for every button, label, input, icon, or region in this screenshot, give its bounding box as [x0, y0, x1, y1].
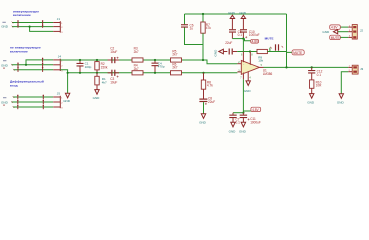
junction (block 2 riser)	[25, 64, 27, 66]
svg-text:1000uF: 1000uF	[250, 120, 261, 124]
wire: J2 pin1	[340, 26, 348, 28]
junction 4.8V rail	[242, 38, 244, 40]
wire C8 to ground	[203, 102, 205, 114]
svg-text:47k: 47k	[206, 26, 211, 30]
jumper SJ2 pads (block 1, x=42.6)	[42, 20, 43, 28]
pin 4 stub (bottom, GND)	[247, 72, 249, 81]
svg-text:1000uF: 1000uF	[249, 33, 260, 37]
resistor R2 150k (vertical, x=97)	[95, 60, 108, 73]
capacitor C2 10uF (polarized, top wire x=113)	[108, 47, 119, 64]
svg-text:LM386: LM386	[263, 72, 273, 76]
wire net top (block 3)	[13, 96, 53, 98]
connector J5 (block 3)	[53, 91, 63, 109]
pin 8 stub (gain, top)	[249, 52, 251, 65]
ground symbol GND (block 3 left)	[1, 98, 9, 106]
resistor R10 10R (Zobel)	[310, 80, 323, 94]
capacitor C1 100p (vertical, x=80)	[77, 60, 92, 73]
jumper SJ5 pads (block 3, x=17.8)	[17, 95, 18, 109]
svg-text:2k7: 2k7	[172, 53, 177, 57]
ground symbol GND (block 1 left)	[1, 22, 9, 28]
wire: from C6/R7 bottom down to top signal wire	[202, 45, 204, 61]
junction R7 top rail	[202, 13, 204, 15]
junction at (250,51.5)	[249, 50, 251, 52]
wire: top signal net from J4 pin1 to step	[60, 60, 237, 64]
junction R2 top	[96, 59, 98, 61]
ground GND (left of C9, rotated)	[214, 49, 228, 57]
svg-text:GND: GND	[307, 101, 315, 105]
ground GND (below C11)	[239, 122, 247, 133]
svg-text:-: -	[243, 62, 244, 66]
wire net signal top (block 2) with riser	[26, 60, 53, 65]
svg-text:4.8V: 4.8V	[252, 108, 259, 112]
resistor R8 4.7k (vertical)	[201, 73, 213, 89]
svg-text:4.8V: 4.8V	[331, 26, 338, 30]
connector J2 (power/mute)	[349, 25, 364, 40]
wire net GND mid (block 2)	[12, 64, 54, 66]
resistor R6 2k7 (bottom wire)	[171, 62, 182, 75]
pin-end ticks block2	[11, 64, 15, 71]
wire: J3 pin2 to GND	[341, 72, 348, 94]
svg-text:150k: 150k	[101, 65, 108, 69]
ground GND (below C8)	[199, 114, 207, 125]
wire: feedback top rail y=14	[185, 13, 287, 15]
wire net lower (block 3)	[13, 106, 53, 108]
svg-text:1u: 1u	[190, 27, 194, 31]
pin 6 stub (supply, top)	[242, 52, 244, 63]
wire net GND mid (block 3)	[12, 101, 54, 103]
resistor R7 47k (vertical x=203)	[201, 14, 211, 45]
svg-text:GND: GND	[1, 24, 9, 28]
junction C12/output	[311, 66, 313, 68]
pin-end ticks block3	[11, 96, 14, 108]
ground symbol GND (block 2 left)	[1, 61, 9, 69]
net flag MUTE (right)	[292, 50, 304, 55]
svg-text:2k7: 2k7	[134, 67, 139, 71]
wire: R9 to mute cap jog	[267, 48, 270, 52]
resistor R9 10k (horizontal)	[257, 49, 267, 62]
junction at (203.5,72.8)	[202, 72, 204, 74]
pin-end ticks block1	[12, 22, 14, 28]
svg-text:10uF: 10uF	[110, 50, 117, 54]
wire net GND mid (block 1)	[12, 26, 53, 28]
connector J4 (block 2)	[53, 55, 63, 73]
pin 5 stub (output)	[259, 66, 263, 68]
capacitor C11 1000uF (bottom, to GND)	[240, 113, 261, 125]
svg-text:GND: GND	[244, 89, 252, 93]
jumper SJ4 pads (block 2, x=42.6)	[42, 58, 43, 72]
wire net lower (block 2)	[14, 69, 54, 71]
connector J3 (output)	[348, 65, 363, 74]
wire net IN1 top (block 1)	[12, 22, 53, 24]
wire: GND drop below bottom net at x=67.6	[67, 73, 69, 93]
svg-text:GND: GND	[239, 129, 247, 133]
wire: C6 branch vertical x=184.5	[184, 14, 186, 24]
svg-text:22uF: 22uF	[208, 100, 215, 104]
net flag MUTE (J2 pin3)	[330, 35, 341, 40]
svg-text:2k7: 2k7	[134, 50, 139, 54]
jumper SJ6 pads (block 3, x=43.3)	[43, 95, 44, 109]
wire: row continues under cap to vertical	[270, 51, 287, 53]
wire: from junction to R9	[250, 51, 257, 53]
wire: bottom rail to C7	[233, 112, 243, 114]
ground GND (below R1)	[93, 90, 101, 101]
wire: supply vertical x=243.4 down to op-amp	[242, 39, 244, 52]
svg-text:GND: GND	[63, 99, 71, 103]
svg-text:0.1: 0.1	[236, 121, 241, 125]
svg-text:4k7: 4k7	[102, 80, 107, 84]
svg-text:22uF: 22uF	[225, 41, 232, 45]
svg-text:+: +	[243, 70, 245, 74]
wire: bypass row to gain pin junction	[237, 51, 250, 53]
junction C4 top	[154, 59, 156, 61]
svg-text:включение: включение	[10, 49, 28, 53]
svg-text:2k7: 2k7	[172, 65, 177, 69]
svg-text:0.1: 0.1	[317, 73, 322, 77]
ground GND (above C10)	[239, 11, 247, 19]
ground GND (below J3 pin2)	[337, 94, 345, 105]
svg-text:GND: GND	[93, 96, 101, 100]
capacitor mute (vertical plates above row)	[275, 44, 279, 50]
ground GND (below C7)	[229, 122, 237, 133]
capacitor C10 1000uF (x=243.4 to GND up)	[240, 19, 260, 39]
ground GND (J2 pin2, pointing left)	[322, 30, 337, 34]
junction at GND drop	[67, 72, 69, 74]
svg-text:J4: J4	[58, 55, 62, 59]
svg-text:GND: GND	[229, 129, 237, 133]
wire stub to 4.8V flag	[245, 39, 251, 41]
net flag 4.8V (top)	[251, 39, 259, 43]
capacitor C6 1u (on x=184.5)	[181, 23, 194, 30]
svg-text:J1: J1	[57, 17, 61, 21]
svg-text:10R: 10R	[316, 84, 322, 88]
wire stub to 4.8V flag (bottom)	[243, 110, 251, 112]
svg-text:4.8V: 4.8V	[252, 39, 259, 43]
capacitor C5 0.1 (x=232.4 to GND up)	[229, 19, 242, 39]
svg-text:GND: GND	[1, 63, 9, 67]
pin-end mark left of mute cap	[270, 47, 271, 49]
OP-AMP U1 LM386	[237, 52, 272, 81]
junction R2 bottom	[96, 72, 98, 74]
wire: J2 pin2 to GND	[338, 31, 349, 33]
capacitor C4 470p (vertical, x=155)	[152, 60, 165, 73]
resistor R3 2k7 (top wire)	[132, 47, 143, 63]
resistor R1 4k7 (vertical, x=97, to GND)	[95, 73, 107, 90]
svg-text:GND: GND	[214, 49, 218, 57]
ground GND (op-amp pin 4)	[244, 81, 252, 93]
net flag 4.8V (J2 pin1)	[330, 25, 341, 30]
ground GND (above C5)	[228, 11, 236, 19]
svg-text:MUTE: MUTE	[331, 36, 340, 40]
connector J1 (block 1)	[53, 17, 63, 34]
wire: output from op-amp to J3	[264, 66, 349, 68]
svg-text:GND: GND	[337, 101, 345, 105]
svg-text:MUTE: MUTE	[293, 51, 302, 55]
pin 7 stub (bottom, to bottom rail)	[242, 74, 244, 80]
svg-text:0.1: 0.1	[238, 33, 243, 37]
svg-text:100p: 100p	[85, 65, 92, 69]
pin 3 stub (non-inverting input)	[237, 71, 241, 73]
svg-text:GND: GND	[1, 100, 9, 104]
wire: J2 pin3	[340, 36, 348, 38]
junction C1 bottom	[79, 72, 81, 74]
resistor R4 2k7 (bottom wire)	[132, 64, 143, 75]
junction at (203,60)	[202, 59, 204, 61]
wire: op-amp pin7 down to bottom 4.8V rail	[242, 79, 244, 112]
svg-text:MUTE: MUTE	[265, 37, 274, 41]
pin-end mark right of mute cap	[282, 46, 284, 48]
jumper SJ1 pads (block 1, x=18)	[17, 20, 18, 28]
junction (block 1)	[29, 26, 31, 28]
svg-text:GND: GND	[239, 11, 247, 15]
wire: 4.8V rail y=38.6	[232, 38, 244, 40]
ground GND (below R10)	[307, 94, 315, 105]
wire net lower (block 1)	[30, 27, 54, 32]
svg-text:4.7k: 4.7k	[207, 84, 213, 88]
svg-text:J2: J2	[360, 29, 364, 33]
svg-text:470p: 470p	[158, 65, 165, 69]
capacitor C7 0.1 (bottom, to GND)	[229, 113, 240, 125]
wire stub to MUTE flag	[287, 51, 293, 54]
wire: bottom signal net from J4 pin3 jog to op-amp	[60, 70, 237, 73]
svg-text:включение: включение	[13, 13, 31, 17]
wire: feedback vertical x=286.5 from top rail to output	[286, 14, 288, 67]
jumper SJ3 pads (block 2, x=18)	[17, 63, 18, 72]
svg-text:10uF: 10uF	[110, 80, 117, 84]
capacitor C8 22uF (polarized, vertical)	[199, 89, 215, 105]
svg-text:GND: GND	[228, 11, 236, 15]
ground GND (x=67.6)	[63, 93, 71, 103]
svg-text:J3: J3	[360, 67, 364, 71]
svg-text:GND: GND	[322, 30, 330, 34]
svg-text:вход: вход	[10, 84, 18, 88]
svg-text:J5: J5	[57, 91, 61, 95]
capacitor C3 10uF (polarized, bottom wire x=113)	[108, 70, 119, 85]
junction bottom rail	[242, 112, 244, 114]
capacitor C9 22uF (bypass, horizontal)	[225, 41, 237, 54]
svg-text:GND: GND	[199, 120, 207, 124]
resistor R5 2k7 (top wire)	[171, 49, 182, 62]
junction feedback/output	[285, 66, 287, 68]
svg-text:10k: 10k	[258, 59, 263, 63]
net flag 4.8V (bottom)	[251, 107, 261, 112]
junction C4 bottom	[154, 72, 156, 74]
junction C1 top	[79, 59, 81, 61]
capacitor C12 0.1 (Zobel)	[308, 67, 323, 80]
pin 2 stub (inverting input)	[237, 63, 241, 65]
